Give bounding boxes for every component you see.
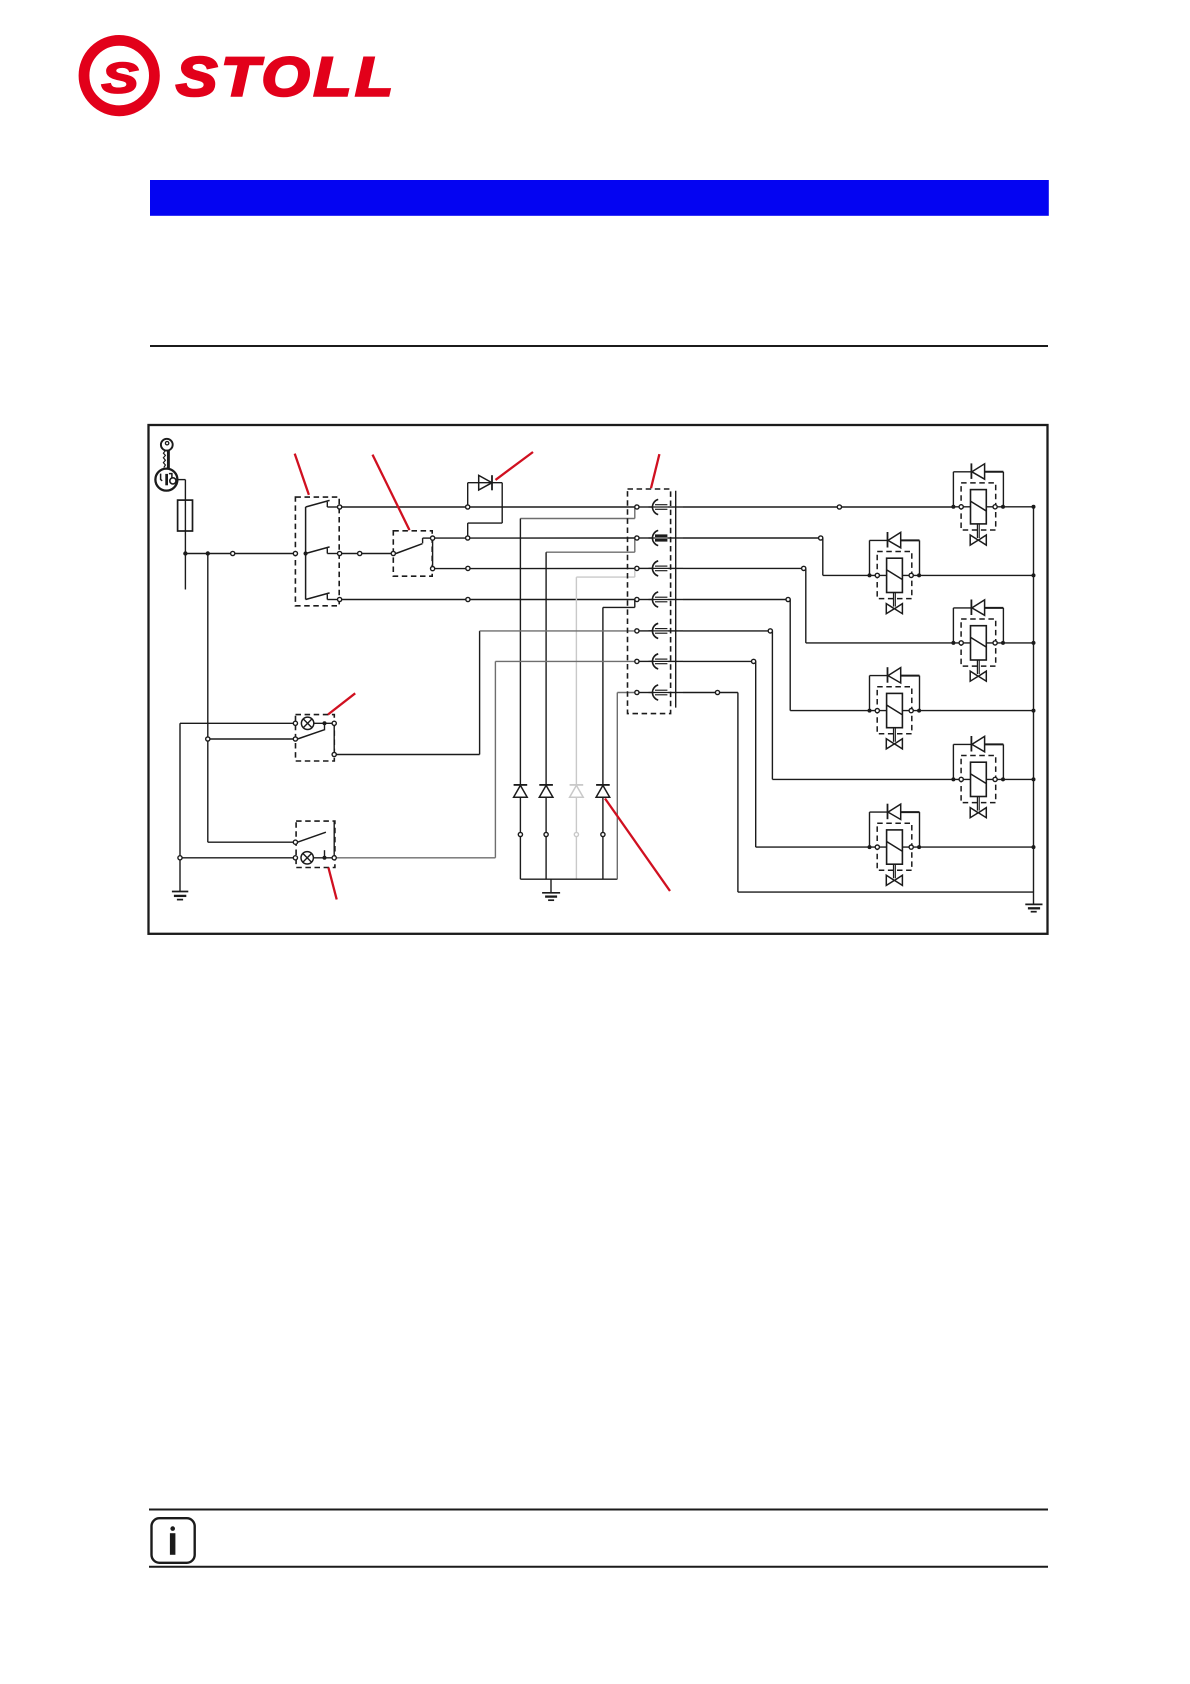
svg-text:STOLL: STOLL [176,46,397,107]
svg-text:S: S [102,54,139,101]
